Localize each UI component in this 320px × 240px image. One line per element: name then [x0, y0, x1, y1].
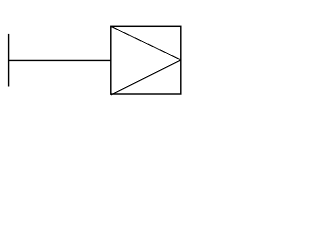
amplifier triangle bottom edge	[111, 60, 181, 95]
amplifier triangle top edge	[111, 26, 181, 60]
amplifier box U1	[111, 26, 181, 94]
wire	[9, 59, 111, 61]
input terminal bar	[8, 34, 10, 87]
